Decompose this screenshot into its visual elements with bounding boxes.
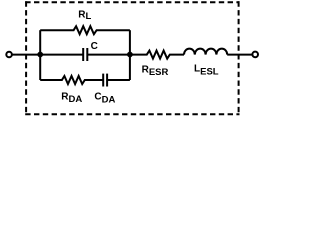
svg-text:LESL: LESL xyxy=(194,64,219,78)
node B junction dot xyxy=(127,52,133,58)
capacitor C_DA (bottom branch) xyxy=(102,74,104,87)
svg-text:RDA: RDA xyxy=(61,91,82,105)
wire: right rail xyxy=(129,30,131,80)
wire: left rail xyxy=(39,30,41,80)
left terminal xyxy=(6,52,12,58)
inductor L_ESL (series) xyxy=(184,49,227,55)
wire: left terminal to node A xyxy=(12,54,40,56)
resistor R_L (top branch) xyxy=(40,26,130,34)
svg-text:C: C xyxy=(91,41,98,52)
right terminal xyxy=(252,52,258,58)
node A junction dot xyxy=(37,52,43,58)
resistor R_DA (bottom branch) xyxy=(40,76,103,84)
wire: inductor to right terminal xyxy=(227,54,252,56)
resistor R_ESR (series) xyxy=(130,51,184,59)
svg-text:RESR: RESR xyxy=(142,64,169,78)
dashed enclosure box xyxy=(25,1,239,115)
svg-text:CDA: CDA xyxy=(94,92,115,106)
svg-text:RL: RL xyxy=(78,9,91,22)
capacitor C (middle branch) xyxy=(40,54,83,56)
